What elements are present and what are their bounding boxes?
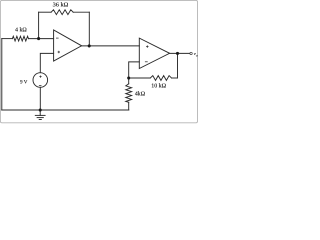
output terminal open circle bbox=[190, 52, 192, 54]
source plus sign bbox=[39, 76, 41, 78]
ground stub bbox=[39, 110, 41, 115]
wire: left input segment bbox=[2, 38, 13, 40]
resistor 10 kOhm horizontal bbox=[150, 76, 171, 81]
svg-text:9 V: 9 V bbox=[20, 79, 28, 85]
wire: node B down to vertical resistor bbox=[128, 78, 130, 84]
ground bar 3 bbox=[39, 119, 41, 121]
resistor 4 kOhm horizontal bbox=[12, 36, 28, 41]
svg-text:4 kΩ: 4 kΩ bbox=[15, 28, 27, 34]
ground bar 2 bbox=[37, 117, 43, 119]
wire: feedback vertical up from node A bbox=[38, 12, 40, 38]
wire: feedback top left segment bbox=[39, 11, 52, 13]
wire: feedback2 vertical up to output node bbox=[177, 53, 179, 78]
wire: op-amp2 minus input feedback left bbox=[129, 62, 140, 78]
op-amp2 plus sign bbox=[146, 46, 148, 48]
ground bar 1 bbox=[35, 114, 45, 116]
op-amp U2 triangle bbox=[139, 38, 169, 68]
figure border frame bbox=[0, 0, 197, 122]
svg-text:36 kΩ: 36 kΩ bbox=[53, 1, 69, 8]
wire: source bottom to rail bbox=[39, 87, 41, 110]
junction dot output node bbox=[176, 52, 179, 55]
wire: feedback top right segment bbox=[73, 11, 89, 13]
wire: feedback2 horizontal right segment bbox=[172, 77, 178, 79]
wire: feedback vertical down to op-amp1 output bbox=[88, 12, 90, 46]
node A junction dot bbox=[37, 37, 40, 40]
op-amp U1 triangle bbox=[54, 30, 82, 61]
wire: op-amp1 plus input from source top bbox=[40, 53, 53, 72]
resistor 36 kOhm horizontal bbox=[51, 10, 73, 15]
wire: op-amp1 output to op-amp2 plus input bbox=[82, 45, 140, 47]
junction dot node B bbox=[127, 76, 130, 79]
source minus sign bbox=[39, 85, 42, 87]
wire: resistor to op-amp minus input bbox=[28, 38, 53, 40]
junction dot op-amp1 output bbox=[88, 44, 91, 47]
svg-text:o: o bbox=[196, 53, 198, 57]
svg-text:10 kΩ: 10 kΩ bbox=[151, 84, 166, 90]
wire: left vertical down to ground rail bbox=[1, 39, 3, 110]
op-amp2 minus sign bbox=[145, 61, 148, 63]
resistor 4kOhm vertical bbox=[126, 84, 132, 103]
wire: op-amp2 output bbox=[170, 52, 190, 54]
wire: feedback2 horizontal left segment bbox=[129, 77, 151, 79]
op-amp1 plus sign bbox=[58, 51, 60, 53]
voltage source 9V circle bbox=[33, 73, 48, 88]
op-amp1 minus sign bbox=[56, 37, 59, 39]
junction dot source to rail bbox=[39, 108, 42, 111]
wire: vertical resistor bottom to rail bbox=[128, 102, 130, 110]
wire: bottom ground rail bbox=[2, 109, 129, 111]
svg-text:4kΩ: 4kΩ bbox=[135, 92, 146, 98]
